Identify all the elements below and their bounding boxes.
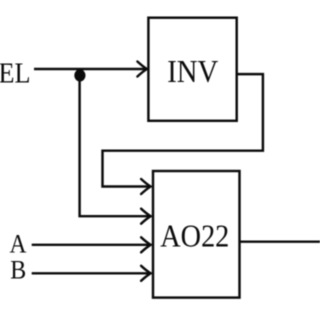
- svg-text:INV: INV: [167, 54, 218, 89]
- svg-text:A: A: [10, 230, 27, 259]
- svg-text:AO22: AO22: [160, 219, 229, 254]
- svg-text:EL: EL: [0, 59, 31, 90]
- svg-text:B: B: [10, 256, 26, 285]
